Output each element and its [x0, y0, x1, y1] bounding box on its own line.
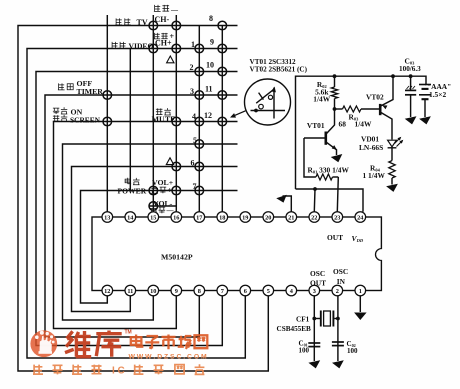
key MUTE: [172, 117, 181, 126]
svg-text:4: 4: [192, 112, 196, 121]
wire pin22 to VDD bus: [313, 189, 316, 212]
svg-text:16: 16: [173, 214, 179, 221]
pin 8: [194, 285, 205, 296]
svg-text:POWER: POWER: [118, 186, 147, 195]
resonator CF1: [312, 311, 339, 327]
key detail column line: [271, 87, 276, 119]
pin 24: [355, 212, 366, 223]
wire column pin17: [198, 26, 200, 212]
transistor VT01: [304, 109, 337, 155]
svg-text:5: 5: [267, 288, 270, 295]
svg-text:W W W . D Z S C . C O M: W W W . D Z S C . C O M: [129, 354, 207, 361]
key TV: [149, 21, 158, 30]
wire VT02 emitter rail junction: [391, 74, 395, 78]
svg-text:10: 10: [150, 288, 156, 295]
svg-text:2: 2: [190, 63, 194, 72]
svg-text:23: 23: [334, 214, 340, 221]
ground pin21: [276, 195, 288, 205]
key VIDEO: [149, 44, 158, 53]
svg-text:12: 12: [204, 111, 212, 120]
svg-text:TV: TV: [137, 18, 148, 27]
label OSC OUT pin3: [310, 269, 326, 288]
svg-text:3: 3: [313, 288, 316, 295]
svg-text:7: 7: [193, 182, 197, 191]
wire scan-line row6 5 to pin 10: [63, 144, 238, 320]
label digit 5: [193, 136, 197, 145]
svg-text:1/4W: 1/4W: [355, 120, 372, 129]
label VDD pin24: [352, 234, 364, 243]
capacitor C03: [405, 74, 416, 117]
ground battery: [419, 116, 432, 125]
key POWER: [149, 186, 158, 195]
svg-text:17: 17: [196, 214, 202, 221]
wire scan-line row2 VIDEO/CH+/1/9 to pin 6: [27, 49, 245, 359]
svg-text:8: 8: [209, 14, 213, 23]
wire pin1 down: [359, 296, 361, 312]
key 3: [195, 91, 204, 100]
label digit 12: [204, 111, 212, 120]
key 1: [195, 44, 204, 53]
label digit 2: [190, 63, 194, 72]
label VT02: [366, 93, 384, 102]
key detail lever: [256, 90, 273, 103]
pin 19: [240, 212, 251, 223]
pin 2: [332, 285, 343, 296]
svg-text:+: +: [168, 186, 173, 195]
svg-text:11: 11: [127, 288, 133, 295]
svg-text:12: 12: [104, 288, 110, 295]
svg-text:6: 6: [244, 288, 247, 295]
pin 23: [332, 212, 343, 223]
label digit 6: [191, 158, 195, 167]
node collector-R02-R03 junction: [333, 107, 337, 111]
svg-text:6: 6: [191, 158, 195, 167]
label OUT pin23: [327, 233, 343, 242]
svg-text:1: 1: [191, 40, 195, 49]
svg-text:VT01: VT01: [307, 121, 325, 130]
svg-text:TIMER: TIMER: [77, 87, 104, 96]
label C01: [299, 340, 310, 355]
svg-text:14: 14: [127, 214, 134, 221]
label TV: [115, 18, 147, 27]
key VOL-: [149, 202, 158, 211]
label VT01: [307, 121, 325, 130]
svg-text:9: 9: [210, 37, 214, 46]
label VOL+: [151, 178, 173, 195]
svg-text:3: 3: [190, 87, 194, 96]
resistor R03: [335, 106, 380, 112]
pin 22: [309, 212, 320, 223]
svg-text:13: 13: [104, 214, 110, 221]
svg-text:9: 9: [175, 288, 178, 295]
label digit 9: [210, 37, 214, 46]
svg-text:18: 18: [219, 214, 225, 221]
label digit 10: [206, 60, 214, 69]
svg-text:24: 24: [357, 214, 364, 221]
pin 6: [240, 285, 251, 296]
wire pin21 to ground: [283, 196, 292, 212]
pin 10: [148, 285, 159, 296]
diode VD01 LED: [388, 137, 404, 148]
wire column pin16: [175, 15, 177, 212]
svg-text:21: 21: [288, 214, 294, 221]
label R02: [313, 80, 330, 103]
label POWER: [118, 178, 147, 196]
wire column pin15: [152, 15, 154, 212]
pin 14: [125, 212, 136, 223]
pin 20: [263, 212, 274, 223]
svg-text:1: 1: [359, 288, 362, 295]
key VOL+: [172, 186, 181, 195]
svg-text:LN-66S: LN-66S: [359, 143, 383, 152]
svg-text:I C: I C: [112, 365, 125, 376]
wire VDD bus to pin24: [296, 187, 364, 212]
pin 13: [102, 212, 113, 223]
watermark url: [129, 354, 207, 361]
label digit 8: [209, 14, 213, 23]
capacitor C02: [332, 342, 344, 346]
svg-text:1 1/4W: 1 1/4W: [363, 171, 386, 180]
wire scan-line row3 2/10 to pin 7: [36, 72, 238, 346]
svg-text:OSC: OSC: [333, 267, 348, 276]
key detail row line: [251, 109, 286, 113]
svg-text:100: 100: [347, 347, 358, 355]
key CH-: [172, 21, 181, 30]
svg-text:5: 5: [193, 136, 197, 145]
label VOL-: [150, 199, 174, 215]
label battery AAA: [427, 82, 451, 99]
svg-text:CH+: CH+: [155, 38, 172, 47]
wire VDD rail: [296, 76, 427, 189]
watermark electronics-market text: [131, 335, 208, 350]
label digit 7: [193, 182, 197, 191]
key OFF TIMER: [103, 91, 112, 100]
key detail contact 2: [259, 104, 264, 109]
svg-text:1.5×2: 1.5×2: [429, 90, 446, 99]
label M50142P: [161, 252, 193, 261]
wire column pin13: [106, 15, 108, 212]
label digit 1: [191, 40, 195, 49]
resistor R01: [304, 138, 338, 180]
svg-text:10: 10: [206, 60, 214, 69]
svg-text:CH-: CH-: [155, 15, 170, 24]
svg-text:100: 100: [299, 347, 310, 355]
label ON SCREEN: [53, 107, 101, 124]
pin 9: [171, 285, 182, 296]
IC notch gap: [380, 249, 382, 260]
key 11: [218, 91, 227, 100]
watermark WEIKU big text: [65, 331, 122, 357]
pin 12: [102, 285, 113, 296]
watermark slogan: [33, 364, 204, 376]
svg-text:MUTE: MUTE: [152, 115, 176, 124]
pin 5: [263, 285, 274, 296]
ground C02: [332, 360, 345, 369]
key construction detail circle: [245, 79, 291, 125]
wire scan-line row1 TV/CH-/8 to pin 5: [18, 26, 268, 372]
label triangle up marker: [167, 56, 174, 63]
svg-text:CSB455EB: CSB455EB: [277, 325, 312, 333]
svg-text:OSC: OSC: [310, 269, 325, 278]
transistor VT02: [380, 76, 393, 139]
label VIDEO: [111, 41, 153, 50]
label digit 11: [205, 84, 213, 93]
key 12: [218, 117, 227, 126]
label R01: [308, 166, 350, 175]
key 9: [218, 44, 227, 53]
ground R04: [386, 184, 399, 193]
key CH+: [172, 44, 181, 53]
svg-text:11: 11: [205, 84, 213, 93]
label R03: [339, 113, 372, 129]
svg-text:7: 7: [221, 288, 224, 295]
svg-text:—: —: [170, 6, 179, 14]
pin 17: [194, 212, 205, 223]
label R04: [363, 164, 386, 180]
svg-text:20: 20: [265, 214, 271, 221]
resistor R02: [331, 74, 337, 109]
pin 1: [355, 285, 366, 296]
svg-text:100/6.3: 100/6.3: [399, 65, 421, 73]
label VT02 type: [250, 65, 308, 73]
key 4: [195, 117, 204, 126]
wire R01 to pin23: [337, 177, 338, 212]
key 7: [195, 186, 204, 195]
wire pin3 down: [313, 296, 315, 361]
svg-text:19: 19: [242, 214, 248, 221]
key 2: [195, 67, 204, 76]
label CF1: [277, 316, 312, 333]
label digit 4: [192, 112, 196, 121]
svg-text:M50142P: M50142P: [161, 252, 193, 261]
svg-text:2: 2: [336, 288, 339, 295]
label OSC IN pin2: [333, 267, 348, 286]
wire scan-line row5 SCREEN/MUTE/4/12 to pin 9: [54, 122, 238, 329]
pin 4: [286, 285, 297, 296]
svg-text:SCREEN: SCREEN: [70, 115, 101, 124]
pin 15: [148, 212, 159, 223]
pin 16: [171, 212, 182, 223]
key 10: [218, 67, 227, 76]
wire column pin14: [129, 49, 131, 191]
label digit 3: [190, 87, 194, 96]
battery AAA: [419, 85, 431, 118]
wire pin2 down: [337, 296, 339, 361]
wire scan-line row8 POWER/VOL+/7 to pin 12: [81, 191, 238, 304]
label VT01 type: [250, 58, 297, 66]
label triangle marker 2: [166, 158, 173, 165]
pin 18: [217, 212, 228, 223]
svg-text:1/4W: 1/4W: [313, 94, 330, 103]
svg-text:CF1: CF1: [296, 316, 310, 324]
svg-text:TM: TM: [125, 330, 132, 336]
svg-text:68: 68: [339, 120, 347, 129]
pin 7: [217, 285, 228, 296]
ground pin1: [354, 313, 367, 321]
key detail cross tick: [259, 93, 264, 100]
key UP: [172, 162, 181, 171]
label CH+: [154, 32, 175, 47]
capacitor C01: [308, 343, 320, 347]
key 8: [218, 21, 227, 30]
label CH- top: [154, 5, 179, 24]
svg-text:8: 8: [198, 288, 201, 295]
wire column pin18: [221, 26, 223, 212]
key ON SCREEN: [103, 117, 112, 126]
pin 11: [125, 285, 136, 296]
wire scan-line row4 TIMER/3/11 to pin 8: [45, 95, 238, 337]
svg-text:22: 22: [311, 214, 317, 221]
watermark logo circle: [30, 330, 57, 357]
pin 21: [286, 212, 297, 223]
svg-text:OUT: OUT: [327, 233, 343, 242]
watermark TM: [125, 330, 132, 336]
key 6: [195, 162, 204, 171]
key 5: [195, 140, 204, 149]
ground VT01 emitter: [331, 154, 344, 164]
resistor R04: [389, 148, 395, 185]
pin 3: [309, 285, 320, 296]
label VD01: [359, 135, 383, 152]
key detail contact 1: [268, 95, 272, 99]
svg-text:VIDEO: VIDEO: [129, 41, 154, 50]
label MUTE: [152, 108, 176, 124]
svg-text:VT02 2SB5621 (C): VT02 2SB5621 (C): [250, 65, 308, 73]
label OFF TIMER: [58, 79, 103, 96]
label C03: [399, 57, 421, 74]
wire row9 VOL-: [149, 205, 177, 207]
label C02: [347, 340, 359, 355]
ground C03: [405, 116, 418, 125]
svg-text:VT02: VT02: [366, 93, 384, 102]
IC M50142P body: [92, 217, 381, 291]
ground C01: [308, 360, 321, 369]
arrow detail-to-key12: [230, 111, 246, 118]
svg-text:15: 15: [150, 214, 156, 221]
wire scan-line row7 TRIANGLE/6 to pin 11: [72, 167, 238, 312]
